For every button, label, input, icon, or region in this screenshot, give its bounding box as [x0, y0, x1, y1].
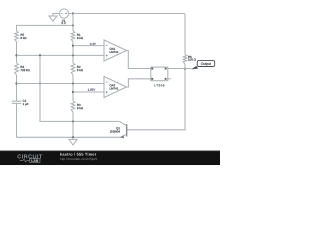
wire R3 to ground rail	[72, 112, 74, 137]
wire OA1 output to latch set input	[127, 51, 151, 69]
wire top supply rail	[73, 14, 185, 55]
capacitor C1	[12, 100, 29, 106]
node junction output (185,68.8)	[184, 68, 186, 70]
circuitlab logo	[17, 154, 42, 158]
wire latch Q output to output node	[168, 68, 192, 70]
node junction 1.65V (73,92)	[72, 91, 74, 93]
node junction 3.3V (73,45.6)	[72, 45, 74, 47]
wire crossing (73,121.4)	[72, 120, 74, 122]
wire crossing (40,83.5)	[39, 83, 41, 85]
resistor R1	[71, 31, 83, 42]
wire crossing (73,55.4)	[72, 54, 74, 56]
wire OA2 output to latch reset input	[127, 79, 151, 87]
node label 1.65V	[88, 89, 95, 91]
wire 1.65V node to OA2 noninverting input	[73, 91, 104, 93]
footer title text	[60, 153, 96, 156]
footer bar	[0, 151, 220, 166]
wire output node to Q1 base	[127, 69, 185, 130]
wire R1 to 3.3V node	[72, 42, 74, 63]
ground top-left	[49, 16, 57, 21]
latch U1	[151, 67, 168, 86]
resistor R2	[71, 63, 83, 75]
node junction discharge (16.5,55.4)	[15, 54, 17, 56]
ground bottom	[69, 137, 77, 145]
wire R5 to discharge node	[16, 42, 18, 63]
wire R4 to cap node	[16, 75, 18, 101]
wire cap node to OA2 inverting input	[17, 83, 105, 85]
node junction Vcc (73,13.5)	[72, 12, 74, 14]
wire crossing (73,83.5)	[72, 83, 74, 85]
wire R6 to output node	[184, 64, 186, 69]
footer url text	[60, 158, 97, 161]
op-amp OA1	[104, 40, 127, 61]
op-amp OA2	[104, 77, 127, 98]
wire latch Qbar stub	[168, 78, 171, 80]
resistor R6	[183, 55, 195, 65]
node junction (73,25.4)	[72, 24, 74, 26]
wire discharge node to OA1 noninverting input	[17, 54, 105, 56]
wire R2 to 1.65V node	[72, 75, 74, 101]
wire 3.3V node to OA1 inverting input	[73, 45, 104, 47]
wire source right lead	[69, 13, 73, 15]
wire left rail top	[17, 25, 74, 31]
voltage source V1	[59, 9, 68, 24]
node junction riser top (40,55.4)	[39, 54, 41, 56]
wire C1 to ground rail	[16, 103, 18, 137]
node label 3.3V	[90, 43, 96, 45]
transistor Q1	[110, 121, 127, 138]
wire ground rail	[17, 136, 121, 138]
wire source left lead	[53, 14, 59, 17]
output flag	[191, 61, 215, 70]
resistor R3	[71, 101, 83, 112]
node junction cap (16.5,83.5)	[15, 82, 17, 84]
resistor R5	[15, 31, 27, 42]
wire riser to Q1 collector run	[40, 55, 120, 121]
node junction ground (73,137.3)	[72, 136, 74, 138]
resistor R4	[15, 63, 30, 75]
wire divider rail top	[72, 14, 74, 32]
